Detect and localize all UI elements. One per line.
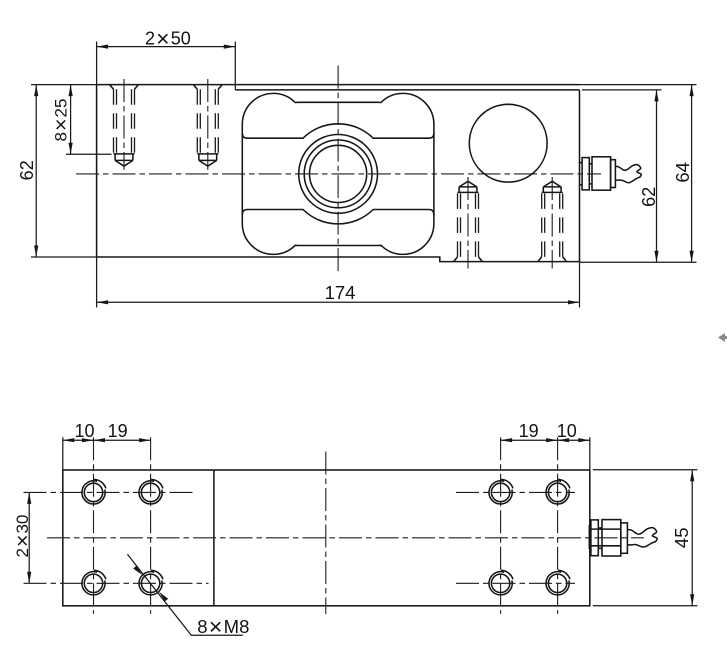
boss vertical centerline: [337, 66, 339, 272]
dim 19 right line: [501, 439, 558, 441]
dim 8x25 line: [70, 85, 72, 155]
dim right extension vertical: [589, 437, 591, 470]
tapped hole H2 thread arc end: [151, 479, 163, 488]
svg-text:45: 45: [671, 528, 692, 549]
central hole circle inner: [310, 145, 367, 202]
tapped hole H6 inner circle: [548, 483, 566, 501]
tapped hole H3 thread arc: [82, 572, 105, 595]
dim 62 left arrows: [34, 85, 38, 257]
dim 62 left line: [35, 85, 37, 257]
body outline right edge: [579, 90, 581, 262]
stud S2 bottom line: [197, 153, 218, 155]
svg-text:62: 62: [17, 160, 37, 180]
dim 19 left arrows: [94, 438, 151, 442]
gland main body: [592, 157, 611, 190]
gland hex flat lines: [591, 529, 621, 546]
dim 2x30 line: [28, 492, 30, 583]
dim 8x25 arrows: [69, 85, 73, 155]
dim 2x30 arrows: [27, 492, 31, 583]
dim 10 right arrows: [558, 438, 590, 442]
svg-text:62: 62: [639, 187, 659, 207]
stud S2 countersink chamfers: [193, 85, 222, 90]
gland cap: [621, 523, 628, 553]
stud S1 countersink chamfers: [110, 85, 139, 90]
tapped hole H3 thread arc end: [94, 570, 106, 579]
dim 45 arrows: [690, 470, 694, 606]
dim 62 left extension lines: [31, 85, 97, 257]
upper slot bottom edge with bulge over boss: [242, 124, 434, 138]
dim 2x50 line: [97, 46, 236, 48]
tapped hole H8 thread arc end: [558, 570, 570, 579]
gland flange ring: [591, 520, 598, 556]
svg-text:174: 174: [325, 282, 356, 303]
gland main body: [602, 520, 621, 556]
tapped hole H4 thread arc: [139, 572, 162, 595]
stud S4 hidden side lines: [542, 192, 563, 257]
tapped hole H1 thread arc end: [94, 479, 106, 488]
tapped hole H8 inner circle: [548, 574, 566, 592]
leader 8xM8 arrowheads: [133, 566, 168, 602]
tapped hole H4 thread arc end: [151, 570, 163, 579]
svg-text:8×M8: 8×M8: [197, 614, 249, 640]
stud S3 tip: [459, 181, 477, 192]
lower slot top edge with bulge under boss: [242, 210, 434, 224]
dim 45 line: [691, 470, 693, 606]
dim 2x50 arrows: [97, 45, 236, 49]
central boss circle outer: [299, 135, 378, 214]
plate rectangle outline: [63, 470, 590, 606]
gland neck: [589, 164, 592, 184]
svg-text:64: 64: [672, 162, 693, 183]
screw stud S2 (top-left, cx=207.8): [193, 79, 222, 170]
screw stud S4 (bottom, cx=552.2): [538, 177, 567, 269]
cable gland (bottom view): [589, 520, 657, 556]
plate horizontal center line: [47, 537, 644, 539]
dim 10 left line: [63, 439, 94, 441]
stud S4 collar line: [542, 191, 563, 193]
tapped hole H1 inner circle: [84, 483, 102, 501]
gland neck: [598, 528, 602, 548]
top view horizontal centerline: [76, 173, 601, 175]
dim 64 extension lines: [580, 85, 697, 263]
stray gray cursor artifact at right edge: [718, 333, 727, 342]
stud S3 centerline: [467, 177, 469, 269]
dim 19 left line: [94, 439, 151, 441]
svg-text:10: 10: [557, 421, 577, 441]
spectacle pocket outer contour (left+right lobes, bridges): [242, 93, 434, 254]
dim 174 arrows: [97, 300, 580, 304]
tapped hole H7 thread arc end: [501, 570, 513, 579]
hole row centerline top-right: [456, 491, 575, 493]
tapped hole H6 thread arc end: [558, 479, 570, 488]
dim 2x50 extension lines: [97, 42, 236, 91]
stud S3 collar line: [458, 191, 479, 193]
svg-text:8×25: 8×25: [49, 99, 73, 142]
tapped hole H2 inner circle: [141, 483, 159, 501]
hole row centerline top-left: [24, 491, 197, 493]
central boss circle middle: [304, 140, 372, 208]
gland cable squiggle: [627, 528, 657, 547]
stud S1 centerline: [123, 79, 125, 170]
dim left extension verticals: [62, 437, 64, 470]
dim 174 line: [97, 301, 580, 303]
tapped hole H2 thread arc: [139, 481, 162, 504]
svg-text:19: 19: [108, 421, 128, 441]
svg-text:2×30: 2×30: [11, 515, 35, 558]
dim 64 arrows: [690, 85, 694, 263]
dim 10 left arrows: [63, 438, 94, 442]
tapped hole H4 inner circle: [141, 574, 159, 592]
gland flange ring: [582, 158, 589, 190]
stud S1 tip: [115, 154, 133, 166]
tapped hole H5 inner circle: [491, 483, 509, 501]
gland cable squiggle: [615, 165, 641, 183]
screw stud S1 (top-left, cx=124): [110, 79, 139, 170]
dim 8x25 extension line bottom: [66, 153, 112, 155]
screw stud S3 (bottom, cx=468.0): [454, 177, 483, 269]
gland sliver ring: [589, 525, 591, 549]
plate vertical center line: [325, 452, 327, 615]
body internal step line: [235, 89, 579, 91]
stud S2 tip: [199, 154, 217, 166]
stud S4 tip: [543, 181, 561, 192]
dim 62 right line: [656, 90, 658, 262]
hole column centerline A (x=93.5): [93, 437, 95, 614]
body outline left edge: [96, 85, 98, 257]
stud S2 hidden side lines: [197, 89, 218, 154]
leader 8xM8 line: [127, 554, 242, 635]
svg-text:2×50: 2×50: [145, 25, 191, 51]
gland sliver ring: [580, 163, 583, 185]
right hole circle: [469, 104, 547, 182]
cable gland (top view): [580, 157, 642, 190]
hole column centerline D (x=557.6): [557, 437, 559, 614]
tapped hole H7 inner circle: [491, 574, 509, 592]
tapped hole H8 thread arc: [546, 572, 569, 595]
tapped hole H5 thread arc: [489, 481, 512, 504]
dim 10 right line: [558, 439, 590, 441]
plate internal division line: [213, 470, 215, 606]
dim 19 right arrows: [501, 438, 558, 442]
hole row centerline bottom-right: [456, 582, 575, 584]
hole row centerline bottom-left: [24, 582, 209, 584]
stud S3 hidden side lines: [458, 192, 479, 257]
stud S1 hidden side lines: [114, 89, 135, 154]
body outline bottom edge with step: [97, 257, 580, 262]
tapped hole H6 thread arc: [546, 481, 569, 504]
stud S3 entrance chamfers: [454, 257, 483, 262]
hole column centerline C (x=500.6): [500, 437, 502, 614]
tapped hole H5 thread arc end: [501, 479, 513, 488]
body outline top edge: [97, 84, 580, 86]
stud S4 entrance chamfers: [538, 257, 567, 262]
dim 45 extension lines: [593, 470, 698, 606]
gland cap: [611, 160, 616, 188]
stud S1 bottom line: [114, 153, 135, 155]
dim 174 extension lines: [97, 257, 580, 308]
svg-text:19: 19: [519, 421, 539, 441]
tapped hole H7 thread arc: [489, 572, 512, 595]
hole column centerline B (x=150.6): [150, 437, 152, 614]
stud S2 centerline: [207, 79, 209, 170]
tapped hole H1 thread arc: [82, 481, 105, 504]
dim 62 right extension line: [582, 89, 662, 91]
tapped hole H3 inner circle: [84, 574, 102, 592]
dim 62 right arrows: [654, 90, 658, 262]
dim 64 line: [691, 85, 693, 263]
svg-text:10: 10: [74, 421, 94, 441]
stud S4 centerline: [551, 177, 553, 269]
